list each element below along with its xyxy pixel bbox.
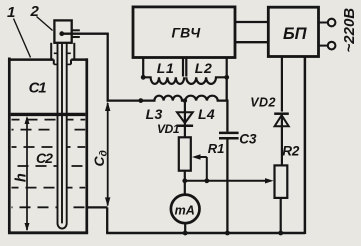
- wire L2 right to L4 right: [226, 77, 228, 100]
- node meter rail: [183, 231, 188, 236]
- wire down to L3 row: [107, 34, 109, 102]
- Cd dimension arrow: [105, 102, 110, 207]
- svg-text:L2: L2: [195, 60, 213, 76]
- node L3 left: [138, 98, 143, 103]
- svg-text:h: h: [13, 173, 29, 182]
- terminal 1 (~220V): [328, 19, 336, 27]
- inductor L2: [186, 77, 226, 84]
- probe tubes white fill: [57, 60, 68, 222]
- node R1 bottom junction: [182, 178, 187, 183]
- svg-text:mA: mA: [175, 203, 195, 217]
- probe outer tube (coax sensor, item 2): [58, 43, 67, 229]
- wire GVCh to L2 left: [185, 58, 187, 77]
- wire GVCh to BP upper: [235, 21, 268, 23]
- wire row2 to L3: [107, 99, 142, 101]
- probe head right stubs: [72, 29, 80, 31]
- svg-text:VD2: VD2: [250, 95, 276, 109]
- liquid surface line: [11, 113, 86, 116]
- terminal 2 (~220V): [328, 42, 336, 50]
- R2 wiper arrowhead: [265, 178, 274, 183]
- svg-text:1: 1: [7, 4, 15, 21]
- milliammeter mA: [171, 195, 200, 224]
- wire wiper line to R2 arrow: [185, 180, 267, 182]
- svg-text:C1: C1: [29, 80, 47, 97]
- wire R2 to rail: [280, 198, 282, 233]
- wire to terminal 2: [319, 45, 328, 47]
- wire down to bottom rail: [106, 207, 108, 233]
- probe inner electrode: [61, 34, 63, 223]
- svg-text:L4: L4: [198, 106, 215, 122]
- wire BP left drop: [281, 57, 283, 112]
- liquid dashed fill lines: [12, 120, 86, 208]
- h dimension arrow: [25, 116, 30, 232]
- wire GVCh to L2 right: [226, 58, 228, 78]
- probe head cap: [54, 20, 71, 42]
- inductor L1: [143, 77, 184, 84]
- svg-text:ГВЧ: ГВЧ: [172, 25, 202, 41]
- wire GVCh to L1 right: [182, 58, 184, 77]
- node L1 left: [141, 75, 146, 80]
- wire GVCh to L1 left: [142, 58, 144, 78]
- box U1 GVCh (HF generator): [133, 7, 235, 58]
- wire probe to down corner: [62, 33, 109, 35]
- wire meter to rail: [184, 223, 186, 233]
- node L2 right: [224, 75, 229, 80]
- svg-text:VD1: VD1: [157, 122, 180, 136]
- svg-text:R1: R1: [208, 141, 225, 156]
- wire vessel wall to ground line: [87, 206, 108, 208]
- svg-text:БП: БП: [283, 25, 308, 43]
- diode VD1: [177, 101, 193, 138]
- vessel C1/C2 tank (item 1): [8, 58, 88, 234]
- node wiper junction: [204, 178, 209, 183]
- capacitor C3: [219, 132, 239, 135]
- svg-text:R2: R2: [282, 143, 300, 158]
- box U2 BP (power supply): [268, 7, 318, 56]
- resistor R1 (potentiometer): [179, 137, 191, 170]
- svg-text:L1: L1: [157, 60, 175, 76]
- wire to terminal 1: [319, 22, 328, 24]
- wire GVCh to BP lower: [235, 41, 268, 43]
- wire BP right drop to rail: [304, 57, 307, 235]
- node VD1 top: [183, 98, 187, 102]
- label 1 leader: [14, 19, 31, 58]
- resistor R2 (potentiometer): [275, 165, 288, 198]
- diode VD2: [274, 114, 289, 166]
- R1 wiper arrow: [192, 154, 207, 181]
- inductor L3: [141, 96, 185, 101]
- svg-text:C3: C3: [239, 132, 257, 147]
- node R2 rail: [278, 231, 283, 236]
- bottom rail: [106, 232, 305, 235]
- svg-text:L3: L3: [146, 106, 163, 122]
- svg-text:C2: C2: [36, 150, 53, 166]
- label 2 leader: [37, 17, 53, 31]
- node C3 rail: [225, 231, 230, 236]
- inductor L4: [185, 96, 227, 101]
- wire C3 down to rail: [226, 139, 228, 233]
- svg-text:~220В: ~220В: [341, 8, 358, 53]
- node: probe terminal: [59, 31, 64, 36]
- wire L4 right down to C3: [226, 100, 228, 132]
- svg-text:2: 2: [30, 3, 40, 20]
- probe collar: [51, 43, 74, 65]
- wire R1 bottom to meter: [184, 171, 186, 195]
